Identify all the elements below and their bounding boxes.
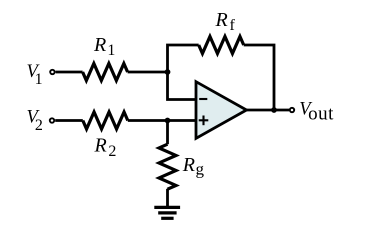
- op-amp U1: [196, 82, 247, 139]
- node output junction: [271, 107, 277, 113]
- wire op-amp output to Vout terminal: [247, 109, 290, 112]
- svg-text:V1: V1: [27, 62, 43, 88]
- wire inverting junction down to op-amp minus input: [168, 71, 197, 100]
- node Vout output terminal: [290, 108, 294, 112]
- resistor R2: [83, 112, 128, 129]
- wire feedback top right segment and drop to output: [244, 45, 274, 110]
- resistor R1: [83, 64, 128, 81]
- svg-text:Rg: Rg: [182, 154, 205, 179]
- wire feedback left riser and top segment: [168, 45, 199, 73]
- wire V2 terminal to R2: [55, 119, 83, 122]
- wire R2 to non-inverting junction and into op-amp plus input: [128, 119, 196, 122]
- node inverting junction: [165, 69, 171, 75]
- wire R1 to inverting junction: [128, 71, 168, 74]
- node non-inverting junction: [165, 118, 171, 124]
- node V1 input terminal: [50, 70, 54, 74]
- svg-text:Vout: Vout: [299, 100, 334, 125]
- wire non-inverting junction down to Rg: [166, 121, 169, 145]
- svg-text:R1: R1: [93, 34, 115, 59]
- ground: [154, 207, 180, 218]
- svg-text:V2: V2: [27, 108, 43, 135]
- svg-text:R2: R2: [94, 135, 117, 160]
- wire V1 terminal to R1: [56, 71, 83, 74]
- node V2 input terminal: [50, 118, 54, 122]
- svg-text:Rf: Rf: [215, 9, 236, 34]
- resistor Rf: [199, 37, 244, 54]
- op-amp inverting input minus symbol: [199, 98, 207, 100]
- op-amp non-inverting input plus symbol: [199, 116, 209, 126]
- resistor Rg: [159, 144, 176, 189]
- wire Rg to ground: [166, 189, 169, 207]
